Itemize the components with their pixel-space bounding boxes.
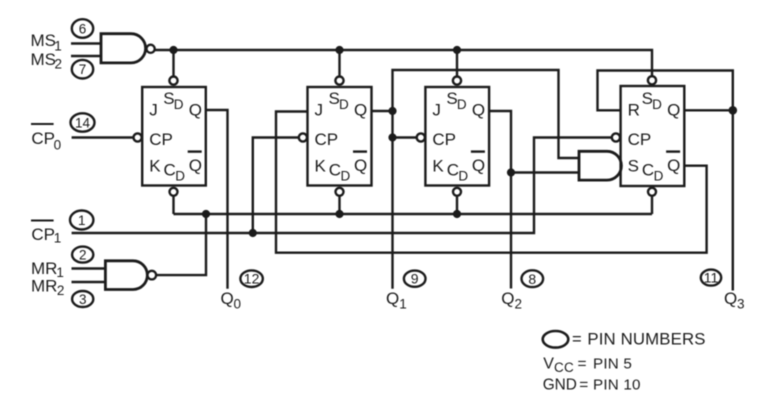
svg-text:PIN 5: PIN 5	[593, 355, 632, 372]
label CP1 (overline)	[31, 221, 61, 246]
junction dot Q2/AND input	[507, 168, 515, 176]
svg-text:CP: CP	[31, 129, 55, 148]
FF2 CD bubble	[336, 188, 344, 196]
junction dot Q3/FF4 Q	[729, 106, 738, 115]
svg-text:D: D	[457, 97, 467, 112]
legend VCC = PIN 5	[543, 355, 632, 375]
svg-text:MS: MS	[31, 31, 57, 50]
svg-text:Q: Q	[724, 289, 737, 308]
FF3 labels	[432, 89, 485, 184]
flip-flop FF2 box	[308, 87, 372, 186]
svg-text:CP: CP	[149, 130, 173, 149]
label Q2	[501, 289, 522, 311]
svg-text:K: K	[149, 157, 161, 176]
svg-text:C: C	[164, 161, 176, 180]
svg-text:Q: Q	[221, 289, 234, 308]
svg-text:D: D	[174, 97, 184, 112]
svg-text:MR: MR	[31, 259, 57, 278]
junction dot SD bus / FF3	[453, 46, 461, 54]
svg-text:J: J	[315, 100, 324, 119]
junction dot CP1/FF2 riser	[249, 229, 257, 237]
svg-text:CC: CC	[554, 360, 574, 375]
svg-text:MS: MS	[31, 50, 57, 69]
label Q3	[724, 289, 745, 312]
svg-text:1: 1	[54, 231, 62, 246]
FF1 SD bubble	[169, 77, 177, 85]
junction dot CD bus / MR riser	[202, 210, 210, 218]
FF4 labels	[628, 89, 681, 184]
svg-text:14: 14	[75, 115, 91, 130]
FF3 CD bubble	[453, 188, 461, 196]
FF1 CD bubble	[170, 188, 178, 196]
wire SD stub FF2	[338, 50, 340, 76]
svg-text:Q: Q	[189, 156, 202, 175]
pin 1	[70, 211, 93, 230]
svg-text:3: 3	[737, 297, 745, 312]
svg-text:2: 2	[55, 56, 63, 71]
svg-text:S: S	[628, 157, 639, 176]
svg-text:9: 9	[411, 271, 419, 287]
svg-text:K: K	[432, 157, 444, 176]
svg-text:11: 11	[704, 270, 719, 286]
wire Q3 net (FF4 Q to terminal and R feedback)	[598, 71, 733, 291]
FF4 CD stub	[651, 196, 653, 214]
svg-text:CP: CP	[315, 130, 339, 149]
svg-text:Q: Q	[472, 156, 485, 175]
svg-text:6: 6	[79, 21, 87, 36]
label MS1	[31, 31, 62, 54]
wire Q1 net (FF2 Q to terminal, FF3 CP, AND gate input 1)	[372, 70, 580, 289]
junction dot CD bus / FF3	[453, 210, 461, 218]
wire CP1 net (to FF2 CP and FF4 CP)	[72, 138, 612, 234]
wire CD clear bus	[174, 213, 653, 215]
pin 7	[72, 60, 93, 79]
label MR2	[31, 277, 64, 299]
FF1 labels	[149, 89, 202, 184]
wire CP0 to FF1 CP	[72, 136, 134, 138]
svg-text:Q: Q	[501, 289, 514, 308]
junction dot SD bus / FF1	[169, 46, 177, 54]
flip-flop FF1 box	[142, 87, 206, 186]
svg-text:D: D	[652, 97, 662, 112]
junction dot CD bus / FF2	[335, 210, 343, 218]
svg-text:D: D	[654, 169, 664, 184]
flip-flop FF3 box	[425, 87, 489, 186]
svg-text:2: 2	[79, 247, 87, 262]
wire SD stub FF1	[172, 50, 174, 76]
and gate (feeds FF4 S)	[579, 151, 621, 180]
svg-text:2: 2	[57, 283, 65, 298]
svg-text:Q: Q	[189, 100, 202, 119]
nand gate MS (master set)	[71, 34, 155, 63]
svg-text:C: C	[329, 161, 341, 180]
pin 9	[404, 271, 426, 287]
svg-text:Q: Q	[667, 156, 680, 175]
wire Q4bar feedback (FF4 Qbar to FF2 J)	[276, 112, 707, 253]
FF2 CD stub	[338, 196, 340, 214]
pin 6	[72, 19, 93, 38]
svg-text:=: =	[578, 355, 587, 372]
label MS2	[31, 50, 63, 71]
junction dot Q1/FF3 CP	[388, 133, 396, 141]
FF2 Qbar overline	[353, 150, 367, 152]
svg-text:V: V	[543, 355, 554, 372]
svg-text:=: =	[579, 377, 588, 394]
FF1 Qbar overline	[188, 150, 202, 152]
pin 14	[71, 113, 95, 131]
svg-text:3: 3	[79, 292, 87, 307]
pin 2	[72, 247, 93, 263]
svg-text:CP: CP	[432, 130, 456, 149]
FF4 SD bubble	[648, 76, 656, 84]
wire SD stub FF3	[456, 50, 458, 76]
svg-text:12: 12	[244, 271, 260, 287]
junction dot SD bus / FF2	[335, 46, 343, 54]
FF2 CP bubble	[299, 133, 307, 141]
svg-text:MR: MR	[31, 277, 57, 296]
legend = PIN NUMBERS	[572, 329, 706, 348]
svg-text:D: D	[175, 169, 185, 184]
svg-text:C: C	[642, 161, 654, 180]
svg-text:Q: Q	[472, 100, 485, 119]
wire Q0 output (FF1 Q to terminal)	[206, 110, 228, 289]
FF4 CP bubble	[612, 133, 620, 141]
label MR1	[31, 259, 64, 280]
FF4 CD bubble	[648, 188, 656, 196]
svg-text:J: J	[149, 100, 158, 119]
svg-text:Q: Q	[386, 289, 399, 308]
svg-text:=: =	[572, 330, 582, 348]
pin 8	[522, 270, 544, 287]
svg-text:C: C	[447, 161, 459, 180]
flip-flop FF4 box	[621, 86, 685, 186]
wire MS bus (SD set bus)	[155, 50, 652, 76]
svg-text:D: D	[339, 97, 349, 112]
svg-text:0: 0	[54, 137, 62, 152]
svg-text:K: K	[315, 157, 327, 176]
svg-text:7: 7	[79, 62, 87, 77]
svg-text:Q: Q	[354, 156, 367, 175]
legend pin circle	[543, 331, 569, 348]
svg-text:D: D	[341, 169, 351, 184]
FF1 CP bubble	[134, 133, 142, 141]
label Q1	[386, 289, 407, 312]
FF4 Qbar overline	[666, 150, 680, 152]
pin 11	[701, 270, 721, 286]
label Q0	[221, 289, 242, 312]
pin 3	[72, 291, 93, 307]
FF2 SD bubble	[335, 77, 343, 85]
svg-text:CP: CP	[31, 225, 55, 244]
svg-text:1: 1	[56, 265, 64, 280]
FF1 CD stub	[172, 196, 174, 214]
FF3 CP bubble	[417, 133, 425, 141]
FF3 SD bubble	[453, 77, 461, 85]
svg-text:GND: GND	[543, 377, 577, 394]
svg-text:D: D	[458, 169, 468, 184]
svg-text:J: J	[432, 100, 441, 119]
svg-text:1: 1	[78, 213, 86, 228]
svg-text:2: 2	[515, 296, 523, 311]
svg-text:8: 8	[528, 271, 536, 287]
wire Q2 net (FF3 Q to terminal, AND gate input 2)	[489, 111, 579, 289]
pin 12	[240, 270, 262, 287]
svg-text:Q: Q	[667, 100, 680, 119]
svg-text:Q: Q	[354, 100, 367, 119]
legend GND = PIN 10	[543, 377, 641, 394]
svg-text:R: R	[628, 100, 640, 119]
svg-text:PIN 10: PIN 10	[593, 377, 641, 394]
FF3 CD stub	[456, 196, 458, 214]
FF2 labels	[315, 89, 368, 184]
FF3 Qbar overline	[471, 150, 485, 152]
svg-text:0: 0	[234, 296, 242, 311]
label CP0 (overline)	[31, 124, 61, 152]
svg-text:PIN NUMBERS: PIN NUMBERS	[587, 329, 705, 348]
junction dot Q1/FF2 Q	[388, 107, 396, 115]
svg-text:CP: CP	[628, 130, 652, 149]
wire MR output to CD bus	[156, 214, 206, 275]
nand gate MR (master reset)	[72, 261, 157, 290]
svg-text:1: 1	[399, 297, 407, 312]
